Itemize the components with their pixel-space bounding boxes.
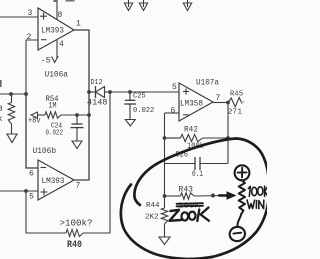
pin number 1	[76, 20, 81, 29]
supply arrow top 1	[124, 0, 132, 11]
svg-text:7: 7	[216, 94, 221, 103]
capacitor C26 0.1	[165, 151, 229, 180]
handwritten LIN label	[247, 200, 264, 209]
handwritten 200 1K annotation	[170, 208, 210, 222]
resistor R43	[165, 186, 229, 200]
resistor R45 271	[228, 91, 245, 117]
svg-text:-5: -5	[41, 56, 51, 66]
left node wire at y=94	[0, 93, 26, 95]
hand-drawn plus terminal circle	[235, 165, 250, 180]
svg-text:8: 8	[0, 104, 3, 114]
svg-text:>100k?: >100k?	[60, 218, 93, 229]
pin number 7 U107a	[216, 94, 221, 103]
svg-text:0.1: 0.1	[192, 170, 203, 179]
ground under C25	[125, 104, 135, 126]
svg-text:6: 6	[29, 170, 34, 179]
svg-text:R42: R42	[184, 126, 198, 135]
pin number 7	[76, 182, 81, 191]
capacitor C25 0.022	[124, 92, 154, 115]
svg-text:R40: R40	[67, 239, 82, 251]
wire pin4 to -5V	[56, 39, 58, 59]
svg-text:5: 5	[172, 83, 177, 92]
capacitor C24 0.022	[46, 115, 84, 138]
resistor R54 1M	[38, 94, 90, 118]
wire node to U107a pin5	[110, 91, 179, 93]
svg-text:LM393: LM393	[42, 176, 65, 186]
junction dot R43 left	[163, 194, 167, 198]
supply arrow top 3	[183, 0, 191, 11]
junction dot R54/rail	[87, 113, 91, 117]
wire pin2 input U106a	[26, 40, 38, 94]
svg-text:6: 6	[171, 107, 176, 116]
+8v arrow	[28, 112, 41, 126]
svg-text:3: 3	[28, 9, 33, 18]
svg-text:k: k	[0, 114, 3, 124]
wire U106b output to rail x=89	[74, 92, 89, 180]
svg-text:27: 27	[228, 109, 237, 117]
wire pin6 U107a to feedback rail	[165, 112, 180, 114]
hand-drawn minus terminal circle	[228, 225, 246, 242]
hand-drawn wiper arrow into pot	[219, 191, 237, 199]
hand-drawn lead to minus terminal	[237, 214, 241, 227]
printed value 200K struck out	[177, 203, 204, 211]
wire R40 to rail x=110	[83, 92, 110, 233]
svg-text:+8v: +8v	[28, 117, 41, 126]
svg-text:R44: R44	[146, 202, 160, 210]
svg-text:0.022: 0.022	[133, 107, 154, 115]
svg-text:1M: 1M	[49, 102, 57, 111]
wire rail x=26 down to pin6	[26, 94, 38, 168]
diode D12 4148	[87, 79, 110, 108]
svg-text:1: 1	[76, 20, 81, 29]
junction dot C24 tap	[75, 113, 79, 117]
wire U107a output	[213, 102, 228, 104]
junction dot output node	[226, 101, 230, 105]
svg-text:4: 4	[59, 40, 64, 49]
junction dot R43 right	[211, 194, 215, 198]
resistor left partial (value cut at edge)	[0, 80, 15, 124]
pin number 4	[59, 40, 64, 49]
junction dot D12 cathode node	[108, 90, 112, 94]
wire pin8 V+ going up	[56, 0, 58, 20]
pin number 5	[29, 193, 34, 202]
svg-text:D12: D12	[91, 79, 103, 87]
svg-text:7: 7	[76, 182, 81, 191]
svg-text:LM393: LM393	[41, 26, 64, 36]
hand-drawn potentiometer element	[239, 181, 245, 215]
svg-text:5: 5	[29, 193, 34, 202]
svg-text:0.022: 0.022	[46, 130, 64, 138]
pin number 8	[58, 11, 63, 20]
junction dot C25 tap	[128, 90, 132, 94]
svg-text:4148: 4148	[87, 99, 108, 108]
svg-text:LM358: LM358	[180, 99, 203, 109]
wire pin3 input U106a	[0, 16, 38, 18]
junction dot rail	[24, 92, 28, 96]
pin number 6 U107a	[171, 107, 176, 116]
-5V supply arrow	[41, 56, 59, 66]
svg-text:2K2: 2K2	[145, 214, 159, 222]
ground under left resistor	[7, 124, 17, 143]
op-amp U106a LM393	[38, 8, 74, 80]
handwritten 100K label	[248, 186, 267, 196]
feedback rail right x=228	[227, 103, 229, 164]
pin number 6	[29, 170, 34, 179]
svg-text:1: 1	[238, 109, 243, 117]
wire pin5 input U106b	[0, 190, 38, 192]
hand-drawn ellipse annotation outer loop	[121, 139, 269, 259]
feedback rail left x=164.5	[164, 113, 166, 196]
svg-text:2: 2	[27, 33, 32, 42]
pin number 2	[27, 33, 32, 42]
op-amp U106b LM393	[33, 146, 75, 200]
svg-text:C25: C25	[133, 93, 146, 101]
junction dot R42 right	[226, 136, 230, 140]
junction dot R42 left	[163, 136, 167, 140]
junction dot pin5 node	[24, 189, 28, 193]
hand-drawn ellipse annotation inner arc	[134, 139, 236, 206]
supply arrow top 2	[139, 0, 147, 11]
pin number 5 U107a	[172, 83, 177, 92]
cropped label fragments at top edge	[54, 0, 75, 2]
resistor R42 100k	[165, 126, 229, 152]
svg-text:U106b: U106b	[33, 146, 57, 156]
svg-text:8: 8	[58, 11, 63, 20]
resistor R44 2K2	[145, 196, 168, 224]
svg-text:U107a: U107a	[196, 78, 219, 88]
ground under R44	[159, 224, 170, 245]
pin number 3	[28, 9, 33, 18]
junction dot left	[9, 92, 13, 96]
resistor R40 >100k?	[60, 218, 93, 252]
op-amp U107a LM358	[179, 78, 219, 122]
svg-text:U106a: U106a	[45, 70, 69, 80]
ground under C24	[72, 128, 82, 149]
wire U106a output to rail	[74, 30, 89, 92]
wire pin5 node down to R40 row	[26, 191, 66, 233]
junction dot D12 anode	[87, 90, 91, 94]
